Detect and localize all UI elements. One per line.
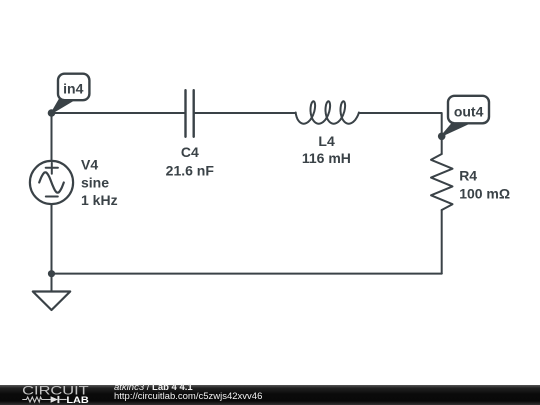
wire top-left: node in4 to C4 left plate [52,112,186,114]
wire: R4 bottom to bottom-right corner [441,210,443,274]
ground symbol triangle [33,292,70,311]
wire: out4 node to R4 top [441,136,443,154]
wire bottom: right corner to ground node [52,273,442,275]
svg-text:V4: V4 [81,156,98,172]
out4 flag tail [442,123,468,137]
svg-text:21.6 nF: 21.6 nF [166,162,215,178]
V4 plus sign [46,163,58,174]
node dot out4 [438,133,446,141]
wire top-right: L4 to corner, down to out4 node [359,113,442,136]
svg-text:1 kHz: 1 kHz [81,192,118,208]
svg-text:sine: sine [81,174,109,190]
svg-text:L4: L4 [318,133,335,149]
inductor L4 coil [296,101,359,123]
in4 flag tail [51,99,72,113]
svg-text:C4: C4 [181,144,199,160]
svg-text:116 mH: 116 mH [302,150,351,166]
svg-text:R4: R4 [459,168,477,184]
wire left: V4 bottom down to ground node [51,204,53,274]
node dot ground [48,270,55,277]
svg-text:LAB: LAB [66,395,89,405]
wire left: in4 node down to V4 top [51,113,53,160]
wire top-mid: C4 right plate to L4 [194,112,296,114]
capacitor C4 plates [186,90,194,137]
resistor R4 zigzag [431,154,453,210]
footer meta text [0,389,540,391]
out4 flag box [448,96,489,124]
V4 sine symbol [39,172,64,192]
svg-text:100 mΩ: 100 mΩ [459,185,510,201]
wire: ground node to ground symbol [51,274,53,292]
node dot in4 [48,109,56,117]
svg-text:out4: out4 [454,103,484,119]
voltage source V4 circle [30,161,73,204]
V4 minus sign [46,196,58,198]
svg-text:in4: in4 [63,81,83,97]
in4 flag box [58,74,89,101]
CircuitLab logo [0,385,100,405]
footer bar [0,385,540,405]
